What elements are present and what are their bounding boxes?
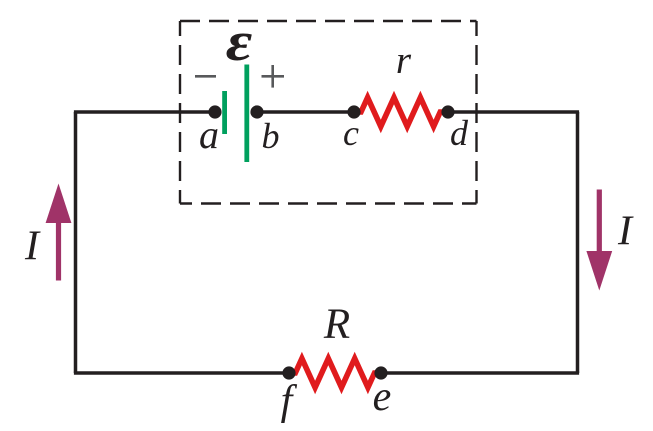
node f	[282, 366, 295, 379]
wire: segment node b to node c	[257, 110, 354, 114]
dashed box: right edge	[475, 21, 477, 204]
resistor r (red zigzag)	[354, 98, 448, 127]
svg-text:f: f	[281, 378, 298, 424]
node a	[208, 105, 221, 118]
svg-text:r: r	[396, 39, 412, 82]
current arrow I (right, downward)	[586, 190, 612, 291]
wire: left vertical	[74, 112, 78, 373]
wire: top left segment to node a	[74, 110, 215, 114]
dashed box: left edge	[179, 21, 181, 204]
svg-text:a: a	[199, 112, 219, 157]
minus sign (battery polarity)	[195, 75, 216, 78]
battery positive plate (long green bar)	[244, 65, 249, 163]
svg-text:c: c	[343, 113, 359, 153]
wire: right vertical	[576, 112, 580, 373]
dashed box around battery: top edge	[180, 20, 477, 22]
node d	[441, 105, 454, 118]
plus sign (battery polarity)	[262, 65, 285, 88]
node c	[347, 105, 360, 118]
svg-text:I: I	[617, 209, 634, 255]
wire: bottom left segment to node f	[74, 371, 289, 375]
svg-text:I: I	[24, 224, 41, 270]
svg-text:b: b	[262, 116, 280, 156]
dashed box: bottom edge	[180, 202, 477, 204]
battery negative plate (short green bar)	[222, 91, 227, 134]
svg-text:ε: ε	[226, 11, 253, 73]
node e	[374, 366, 387, 379]
wire: segment node d to top right corner	[448, 110, 579, 114]
current arrow I (left, upward)	[46, 184, 72, 281]
svg-text:d: d	[450, 113, 469, 153]
resistor R (red zigzag)	[289, 359, 381, 388]
node b	[250, 105, 263, 118]
svg-text:e: e	[373, 374, 392, 420]
wire: segment node e to bottom right corner	[381, 371, 579, 375]
svg-text:R: R	[323, 301, 350, 348]
